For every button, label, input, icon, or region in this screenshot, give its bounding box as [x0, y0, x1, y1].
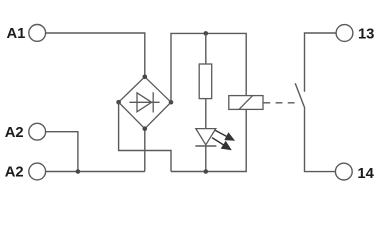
LED arrow 2	[212, 138, 232, 151]
svg-text:A1: A1	[6, 26, 25, 42]
LED cathode bar	[195, 145, 216, 147]
wire A2 upper down to lower rail	[46, 132, 78, 172]
bridge diode triangle	[137, 93, 152, 112]
wire terminal 13 to contact	[305, 33, 336, 92]
node bridge left	[116, 100, 121, 105]
LED triangle	[196, 129, 216, 145]
label A2 upper	[5, 125, 24, 141]
wire A2 to bridge bottom	[46, 171, 145, 173]
wire resistor to LED	[205, 99, 207, 129]
svg-text:A2: A2	[5, 165, 24, 181]
svg-text:A2: A2	[5, 125, 24, 141]
terminal 13	[336, 25, 353, 42]
wire bridge right vertex up to top rail	[171, 33, 246, 102]
terminal A1	[29, 25, 46, 42]
resistor	[199, 64, 212, 99]
terminal 14	[335, 163, 352, 180]
bridge diode line	[129, 101, 159, 103]
junction A2 wires	[76, 169, 81, 174]
contact blade	[295, 83, 305, 108]
label 14	[357, 166, 374, 182]
svg-text:13: 13	[358, 26, 374, 42]
wire top rail to resistor	[205, 33, 207, 64]
wire LED to bottom rail	[205, 146, 207, 172]
junction LED branch bottom	[204, 169, 209, 174]
label 13	[358, 26, 374, 42]
dashed actuator link	[263, 102, 296, 104]
relay coil K1	[229, 96, 263, 110]
junction resistor branch top	[204, 31, 209, 36]
bridge rectifier diamond	[119, 77, 171, 129]
wire bottom rail to coil	[171, 109, 246, 171]
terminal A2 lower	[29, 163, 46, 180]
svg-text:14: 14	[357, 166, 374, 182]
label A1	[6, 26, 25, 42]
bridge diode cathode bar	[152, 92, 154, 112]
node bridge bottom	[143, 126, 148, 131]
terminal A2 upper	[29, 123, 46, 140]
wire A1 to bridge top	[46, 33, 145, 77]
node bridge top	[143, 75, 148, 80]
wire contact to terminal 14	[305, 108, 336, 171]
wire bridge bottom vertex down	[144, 129, 146, 172]
label A2 lower	[5, 165, 24, 181]
LED arrow 1	[215, 130, 235, 140]
wire bridge left vertex to bottom rail	[119, 102, 171, 171]
node bridge right	[169, 100, 174, 105]
